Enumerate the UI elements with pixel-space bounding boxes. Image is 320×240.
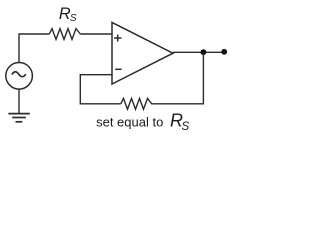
feedback wire left side to minus input bbox=[80, 75, 121, 104]
op-amp U1 bbox=[112, 22, 173, 84]
output terminal dot bbox=[221, 49, 227, 55]
svg-text:S: S bbox=[70, 13, 77, 24]
svg-text:set equal to: set equal to bbox=[96, 114, 163, 129]
op-amp minus input marker bbox=[115, 68, 121, 70]
node junction dot bbox=[201, 49, 207, 55]
voltage source VS bbox=[6, 63, 33, 90]
wire source top to RS bbox=[19, 34, 49, 63]
ground bbox=[8, 114, 29, 122]
wire RS to op-amp plus input bbox=[80, 33, 112, 35]
svg-text:S: S bbox=[182, 120, 190, 133]
feedback resistor bbox=[121, 98, 152, 109]
op-amp plus input marker bbox=[114, 35, 121, 42]
output wire bbox=[173, 51, 224, 53]
resistor RS bbox=[49, 29, 80, 40]
wire source bottom to ground bbox=[18, 89, 20, 113]
feedback wire right side bbox=[151, 52, 203, 104]
